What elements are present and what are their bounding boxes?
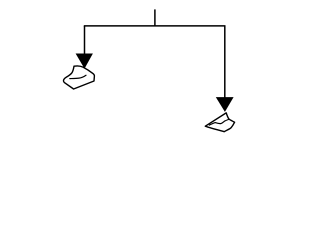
- node: right scribble shape: [205, 113, 234, 132]
- arrowhead right: [216, 97, 234, 112]
- wire: left drop: [84, 26, 86, 55]
- wire: top stub: [154, 9, 156, 26]
- node: left scribble shape: [63, 66, 94, 89]
- wire: horizontal branch: [84, 25, 226, 27]
- wire: right drop: [224, 26, 226, 99]
- arrowhead left: [76, 54, 93, 69]
